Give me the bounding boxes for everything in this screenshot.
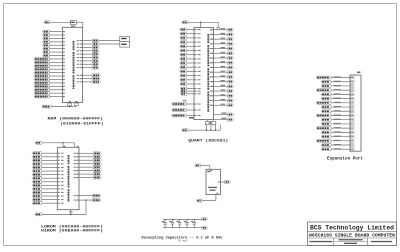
MPU U1 left pin 6 wire and net flag bbox=[43, 47, 65, 50]
note RAM address range bbox=[48, 116, 104, 126]
EPROM U2 right data pin 8 bbox=[74, 176, 102, 179]
QUART U3 left pin 5 wire and net flag bbox=[180, 45, 201, 48]
EPROM U2 right data pin 2 bbox=[74, 155, 102, 158]
QUART U3 right pin 8 wire and net flag bbox=[210, 61, 234, 64]
connector J1 pin 1 wire and net flag bbox=[316, 76, 354, 79]
ground rail caps bbox=[163, 227, 202, 229]
EPROM U2 left pin 5 wire and net flag bbox=[32, 166, 64, 169]
connector J1 expansion port body bbox=[350, 72, 361, 152]
connector J1 pin 6 wire and net flag bbox=[321, 97, 354, 100]
QUART U3 right pin 16 wire and net flag bbox=[210, 99, 234, 102]
MPU U1 left pin 12 wire and net flag bbox=[34, 68, 65, 71]
title text company bbox=[310, 224, 394, 231]
capacitor C3 bbox=[176, 219, 181, 228]
QUART U3 left pin 7 wire and net flag bbox=[180, 53, 201, 56]
note expansion port bbox=[327, 156, 363, 161]
resistor R1 pull-up bbox=[68, 101, 72, 106]
label +5v bbox=[189, 117, 194, 118]
QUART U3 left pin 4 wire and net flag bbox=[180, 41, 201, 44]
EPROM U2 W27C256 body bbox=[57, 147, 79, 209]
MPU U1 left pin 16 wire and net flag bbox=[34, 81, 65, 84]
net flag +5V cap rail bbox=[202, 218, 208, 221]
connector J1 pin 9 wire and net flag bbox=[321, 110, 354, 113]
connector J1 pin 13 wire and net flag bbox=[316, 127, 354, 130]
svg-text:(010000-01FFFF): (010000-01FFFF) bbox=[60, 121, 104, 126]
svg-text:BCS Technology Limited: BCS Technology Limited bbox=[310, 224, 394, 231]
net flag +5V osc bbox=[195, 164, 201, 167]
jumper block JP2 bbox=[120, 42, 130, 47]
EPROM U2 right pin A14/OEB 1 bbox=[74, 194, 101, 197]
title block frame bbox=[308, 222, 397, 245]
net flag GND osc bbox=[196, 199, 202, 202]
MPU U1 right pin 6 wire and net flag bbox=[77, 56, 99, 59]
EPROM U2 left pin 9 wire and net flag bbox=[32, 180, 64, 183]
QUART U3 left pin 8 wire and net flag bbox=[180, 57, 201, 60]
QUART U3 left pin 17 wire and net flag bbox=[180, 92, 201, 95]
MPU U1 left pin 19 wire and net flag bbox=[34, 92, 65, 95]
QUART U3 right pin 6 wire and net flag bbox=[210, 52, 234, 55]
wire RESB to pull-up network bbox=[52, 106, 77, 108]
QUART U3 right pin 4 wire and net flag bbox=[210, 42, 234, 45]
QUART U3 right pin 11 wire and net flag bbox=[210, 75, 234, 78]
MPU U1 left pin 15 wire and net flag bbox=[34, 78, 65, 81]
connector J1 pin 8 wire and net flag bbox=[321, 106, 354, 109]
MPU U1 left pin 13 wire and net flag bbox=[34, 71, 65, 74]
MPU U1 right pin 7 wire and net flag bbox=[77, 59, 99, 62]
connector J1 pin 15 wire and net flag bbox=[321, 135, 354, 138]
svg-text:(5 ea): (5 ea) bbox=[178, 239, 188, 243]
QUART right lower pin OP2 bbox=[214, 113, 234, 117]
note QUART type bbox=[188, 139, 228, 144]
MPU U1 right control pin 1 bbox=[77, 74, 101, 77]
polarity mark QUART left bbox=[183, 99, 187, 102]
note decoupling capacitors bbox=[142, 235, 224, 242]
QUART U3 right pin 5 wire and net flag bbox=[210, 47, 234, 50]
EPROM U2 right data pin 5 bbox=[74, 166, 102, 169]
title cell document bbox=[339, 239, 363, 244]
EPROM U2 left pin 3 wire and net flag bbox=[32, 159, 64, 162]
QUART U3 left pin 20 wire and net flag bbox=[172, 114, 201, 117]
QUART U3 left pin 14 wire and net flag bbox=[180, 83, 201, 86]
EPROM U2 left pin 2 wire and net flag bbox=[32, 155, 64, 158]
connector J1 pin 2 wire and net flag bbox=[321, 80, 354, 83]
EPROM U2 left pin 4 wire and net flag bbox=[32, 162, 64, 165]
EPROM U2 left pin 13 wire and net flag bbox=[32, 195, 64, 198]
title text project bbox=[309, 235, 396, 239]
QUART U3 right pin 2 wire and net flag bbox=[210, 33, 234, 36]
EPROM U2 left pin 7 wire and net flag bbox=[32, 173, 64, 176]
QUART U3 right pin 9 wire and net flag bbox=[210, 66, 234, 69]
QUART U3 left pin 15 wire and net flag bbox=[180, 87, 201, 90]
oscillator Y1 8MHz bbox=[70, 21, 76, 27]
crystal Y2 bbox=[205, 121, 215, 124]
EPROM U2 right data pin 4 bbox=[74, 162, 102, 165]
MPU U1 W65C816S body bbox=[63, 27, 83, 102]
MPU U1 left pin 7 wire and net flag bbox=[43, 51, 65, 54]
QUART U3 left pin 11 wire and net flag bbox=[180, 70, 201, 73]
wire QUART to crystal bbox=[208, 120, 214, 122]
net flag RESB bbox=[42, 105, 52, 108]
MPU U1 right pin 8 wire and net flag bbox=[77, 63, 99, 66]
MPU U1 left pin 1 wire and net flag bbox=[43, 30, 65, 33]
net flag GND cap rail bbox=[202, 226, 208, 229]
svg-text:RAM (000000-00FFFF): RAM (000000-00FFFF) bbox=[48, 116, 104, 121]
QUART U3 right pin 17 wire and net flag bbox=[210, 104, 234, 107]
MPU U1 left pin 9 wire and net flag bbox=[34, 58, 65, 61]
MPU U1 left pin 10 wire and net flag bbox=[34, 61, 65, 64]
EPROM U2 left pin 10 wire and net flag bbox=[32, 184, 64, 187]
power rail +5V caps bbox=[163, 218, 202, 220]
QUART U3 left pin 6 wire and net flag bbox=[180, 49, 201, 52]
QUART U3 left pin 16 wire and net flag bbox=[180, 90, 201, 93]
MPU U1 right control pin 2 bbox=[77, 77, 101, 80]
EPROM U2 left pin 14 wire and net flag bbox=[32, 198, 64, 201]
QUART U3 right pin 12 wire and net flag bbox=[210, 80, 234, 83]
MPU U1 left pin 5 wire and net flag bbox=[43, 44, 65, 47]
title cell author bbox=[310, 241, 333, 242]
connector J1 pin 14 wire and net flag bbox=[321, 131, 354, 134]
wire X1 clock to QUART bbox=[188, 22, 218, 28]
QUART U3 left pin 1 wire and net flag bbox=[180, 28, 201, 31]
clock net flag PHI2 bbox=[44, 21, 50, 24]
QUART U3 left pin 3 wire and net flag bbox=[180, 36, 201, 39]
capacitor C7 crystal load bbox=[217, 28, 220, 30]
wire to jumper block JP2 bbox=[99, 43, 120, 45]
capacitor C6 bbox=[75, 101, 79, 106]
MPU U1 right pin 9 wire and net flag bbox=[77, 66, 99, 69]
MPU U1 right pin 1 wire and net flag bbox=[77, 39, 99, 42]
net flag +5V ROM top bbox=[35, 141, 42, 144]
wire to jumper block JP1 bbox=[99, 40, 120, 42]
svg-text:QUART (88C681): QUART (88C681) bbox=[188, 139, 228, 144]
EPROM U2 right data pin 3 bbox=[74, 159, 102, 162]
connector J1 pin 4 wire and net flag bbox=[316, 89, 354, 92]
QUART U3 right pin 1 wire and net flag bbox=[210, 28, 234, 31]
QUART U3 left pin 12 wire and net flag bbox=[180, 74, 201, 77]
MPU U1 right pin 5 wire and net flag bbox=[77, 53, 99, 56]
clock net flag X1 QUART top bbox=[182, 21, 189, 24]
QUART U3 left pin 2 wire and net flag bbox=[180, 32, 201, 35]
MPU U1 left pin 2 wire and net flag bbox=[43, 34, 65, 37]
note ROM address ranges bbox=[41, 224, 103, 233]
QUART U3 right pin 14 wire and net flag bbox=[210, 90, 234, 93]
connector J1 pin 5 wire and net flag bbox=[321, 93, 354, 96]
MPU U1 left pin 3 wire and net flag bbox=[43, 37, 65, 40]
MPU U1 left pin 11 wire and net flag bbox=[34, 64, 65, 67]
wire oscillator output bbox=[218, 181, 224, 182]
connector J1 pin 16 wire and net flag bbox=[316, 139, 354, 142]
QUART U3 left pin 18 wire and net flag bbox=[172, 103, 201, 106]
connector J1 pin 10 wire and net flag bbox=[316, 114, 354, 117]
svg-text:HIROM (00E000-00FFFF): HIROM (00E000-00FFFF) bbox=[41, 228, 103, 233]
MPU U1 right pin 2 wire and net flag bbox=[77, 43, 99, 46]
EPROM U2 right data pin 7 bbox=[74, 173, 102, 176]
QUART U3 right pin 13 wire and net flag bbox=[210, 85, 234, 88]
QUART U3 left pin 13 wire and net flag bbox=[180, 78, 201, 81]
EPROM U2 left pin 1 wire and net flag bbox=[32, 152, 64, 155]
capacitor C2 bbox=[169, 219, 174, 228]
MPU U1 right control pin 3 bbox=[77, 80, 101, 83]
capacitor C4 bbox=[184, 219, 189, 228]
QUART U3 left pin 9 wire and net flag bbox=[180, 62, 201, 65]
jumper block JP1 bbox=[120, 36, 130, 41]
EPROM U2 left pin 6 wire and net flag bbox=[32, 170, 64, 173]
connector J1 pin 11 wire and net flag bbox=[321, 118, 354, 121]
EPROM U2 left pin 11 wire and net flag bbox=[32, 187, 64, 190]
QUART U3 SCC28C94 body bbox=[194, 28, 214, 120]
MPU U1 left pin 20 wire and net flag bbox=[34, 95, 65, 98]
QUART U3 right pin 7 wire and net flag bbox=[210, 56, 234, 59]
EPROM U2 left pin 8 wire and net flag bbox=[32, 177, 64, 180]
capacitor C5 bbox=[191, 219, 196, 228]
MPU U1 left pin 8 wire and net flag bbox=[43, 54, 65, 57]
MPU U1 left pin 17 wire and net flag bbox=[34, 85, 65, 88]
EPROM U2 right pin A14/OEB 2 bbox=[74, 199, 101, 202]
wire +5V to ROM pins bbox=[42, 142, 79, 147]
svg-text:W65C816S SINGLE BOARD COMPUTER: W65C816S SINGLE BOARD COMPUTER bbox=[309, 235, 396, 239]
net flag X1 osc out bbox=[224, 181, 230, 184]
EPROM U2 right data pin 6 bbox=[74, 169, 102, 172]
connector J1 pin 7 wire and net flag bbox=[316, 101, 354, 104]
wire GND rail under ROM bbox=[42, 210, 86, 215]
connector J1 pin 18 wire and net flag bbox=[321, 148, 354, 151]
EPROM U2 left pin 12 wire and net flag bbox=[32, 191, 64, 194]
wire GND to oscillator bbox=[202, 193, 218, 201]
net flag GND ROM bottom bbox=[35, 213, 42, 216]
MPU U1 left pin 18 wire and net flag bbox=[34, 88, 65, 91]
wire crystal to ground rail bbox=[188, 125, 220, 131]
wire +5V to oscillator bbox=[201, 165, 212, 171]
EPROM U2 right data pin 1 bbox=[74, 152, 102, 155]
MPU U1 right pin 4 wire and net flag bbox=[77, 49, 99, 52]
EPROM U2 left pin 15 wire and net flag bbox=[32, 202, 64, 205]
QUART U3 right pin 10 wire and net flag bbox=[210, 71, 234, 74]
net flag GND QUART bottom bbox=[182, 129, 189, 132]
QUART U3 left pin 10 wire and net flag bbox=[180, 66, 201, 69]
MPU U1 left pin 4 wire and net flag bbox=[43, 40, 65, 43]
QUART U3 right pin 3 wire and net flag bbox=[210, 38, 234, 41]
QUART U3 right pin 15 wire and net flag bbox=[210, 94, 234, 97]
QUART U3 left pin 19 wire and net flag bbox=[172, 109, 201, 112]
wire clock to MPU bbox=[50, 22, 83, 28]
QUART right lower pin OP3 bbox=[214, 118, 234, 122]
connector J1 pin 3 wire and net flag bbox=[321, 85, 354, 88]
connector J1 pin 17 wire and net flag bbox=[321, 144, 354, 147]
title cell page bbox=[371, 241, 392, 242]
connector J1 pin 12 wire and net flag bbox=[321, 122, 354, 125]
MPU U1 left pin 14 wire and net flag bbox=[34, 75, 65, 78]
oscillator module U4 1.8432 MHz body bbox=[206, 169, 220, 194]
capacitor C1 bbox=[162, 219, 167, 228]
wire ROM OEB loop riser bbox=[85, 199, 86, 214]
svg-text:Expansion Port: Expansion Port bbox=[327, 156, 363, 161]
MPU U1 right pin 3 wire and net flag bbox=[77, 46, 99, 49]
